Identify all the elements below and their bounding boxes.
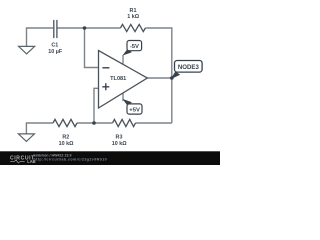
svg-text:R1: R1	[130, 8, 137, 14]
svg-text:NODE3: NODE3	[178, 64, 200, 71]
wire: feedback node A down to inverting input	[85, 28, 99, 68]
wire: R1 right to top-right corner down to bottom wire	[145, 28, 171, 123]
wire: R2 right to R3 left (through node B)	[77, 122, 113, 124]
svg-text:R3: R3	[116, 135, 123, 141]
svg-text:-5V: -5V	[130, 44, 139, 50]
wire: node B up to non-inverting input	[94, 88, 99, 123]
label R1 value	[127, 8, 139, 20]
capacitor C1	[54, 20, 57, 38]
svg-text:+5V: +5V	[129, 108, 140, 114]
wire: C1 right to R1 left (through node A)	[57, 27, 120, 29]
svg-text:TL081: TL081	[110, 76, 126, 82]
wire: op-amp output to right vertical	[147, 77, 172, 79]
node A junction dot	[83, 26, 87, 30]
footer logo CIRCUIT LAB	[10, 156, 36, 165]
footer credit text	[34, 153, 108, 161]
node B junction dot	[92, 121, 96, 125]
power flag +5V	[122, 99, 142, 114]
resistor R3	[113, 119, 136, 126]
wire bottom: ground2 stub to R2 left	[26, 123, 53, 134]
svg-text:10 kΩ: 10 kΩ	[59, 141, 74, 147]
node flag NODE3	[171, 61, 203, 80]
power flag -5V	[122, 41, 141, 56]
label R3 value	[112, 135, 127, 147]
ground GND2 (bottom left)	[18, 134, 34, 142]
svg-text:10 kΩ: 10 kΩ	[112, 141, 127, 147]
svg-text:R2: R2	[62, 135, 69, 141]
op-amp U1 positive supply pin stub	[122, 55, 124, 65]
resistor R1	[120, 24, 145, 31]
resistor R2	[53, 119, 77, 126]
svg-text:1 kΩ: 1 kΩ	[127, 14, 139, 20]
label R2 value	[59, 135, 74, 147]
svg-text:10 µF: 10 µF	[48, 49, 63, 55]
svg-text:http://circuitlab.com/c/23g2v9: http://circuitlab.com/c/23g2v9Nb10	[34, 158, 108, 162]
output node junction dot	[170, 76, 174, 80]
wire top: ground1 stub to C1 left	[27, 28, 54, 46]
wire: R3 right to bottom-right corner	[136, 122, 172, 124]
ground GND1 (top left)	[19, 46, 35, 54]
svg-text:C1: C1	[51, 43, 58, 49]
op-amp U1	[99, 51, 148, 109]
op-amp U1 negative supply pin stub	[122, 93, 124, 101]
label C1 value	[48, 43, 63, 56]
footer watermark bar	[0, 151, 220, 165]
